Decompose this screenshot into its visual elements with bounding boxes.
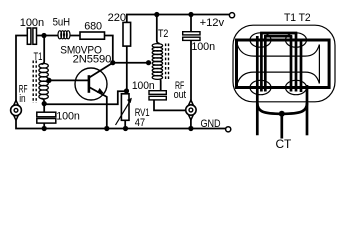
T1 core dashes <box>32 61 34 104</box>
transformer T1 winding <box>42 36 45 65</box>
svg-text:5uH: 5uH <box>53 17 71 29</box>
svg-text:100n: 100n <box>132 80 155 92</box>
node T1 tap dot <box>46 78 51 83</box>
wire: C3 bottom to RF out <box>154 100 186 111</box>
wire: C1 to node A <box>37 35 59 37</box>
emitter lead with arrow <box>89 87 107 129</box>
wire: C4 bottom to RF out connector top <box>190 40 192 100</box>
transistor Q1 2N5590 <box>75 68 107 100</box>
node top rail C4 dot <box>188 12 193 17</box>
node C2 ground dot <box>42 126 47 131</box>
node T1 bottom dot <box>42 101 47 106</box>
collector lead diagonal to node <box>89 63 113 78</box>
resistor R2 220 (vertical) <box>123 22 131 46</box>
node RV1 ground dot <box>123 126 128 131</box>
wire: bias node to T1 bottom (crosses emitter wire) <box>44 91 126 104</box>
wire: collector node to T2 tap <box>113 62 150 64</box>
svg-text:47: 47 <box>135 117 145 129</box>
wire: J2 bottom to rail <box>190 120 192 129</box>
node top rail T2 dot <box>154 12 159 17</box>
svg-text:T2: T2 <box>158 28 168 40</box>
resistor R1 680 <box>80 32 105 39</box>
winding diagram: core block <box>237 40 330 88</box>
winding diagram: wire bars through right tube <box>290 36 293 91</box>
winding diagram: wire bars through left tube <box>256 36 259 135</box>
node bias junction dot <box>124 88 129 93</box>
svg-text:100n: 100n <box>191 41 215 53</box>
wire: R1 right down to collector node <box>105 36 113 63</box>
capacitor C1 100n (input coupling) <box>27 28 31 44</box>
node A junction dot <box>41 33 46 38</box>
svg-text:100n: 100n <box>20 17 44 29</box>
svg-text:out: out <box>174 89 186 101</box>
svg-text:T1: T1 <box>34 51 43 63</box>
connector J1 RF in <box>11 100 20 120</box>
connector J2 RF out <box>186 100 195 120</box>
wire: R2 top to +12v rail corner <box>127 15 230 23</box>
wire: CT lead <box>280 114 283 139</box>
winding diagram: centre tap curve <box>257 103 307 114</box>
node T2 tap dot <box>146 60 151 65</box>
svg-text:GND: GND <box>201 118 221 130</box>
wire: J1 bottom to rail corner <box>16 120 226 128</box>
wire: C2 bottom to rail <box>43 123 45 128</box>
svg-text:220: 220 <box>108 12 126 24</box>
wire: T1 tap to base <box>49 79 88 81</box>
terminal +12v <box>229 13 234 18</box>
terminal GND <box>226 127 231 132</box>
svg-text:T1 T2: T1 T2 <box>284 12 311 24</box>
capacitor C2 100n (T1 bottom to ground) <box>37 112 56 117</box>
winding diagram: tube opening ellipses <box>250 33 271 47</box>
transformer T2 winding <box>157 15 160 44</box>
wire: R2 bottom down to bias node <box>126 46 128 91</box>
capacitor C3 100n (output coupling) <box>149 91 166 95</box>
svg-text:100n: 100n <box>56 111 80 123</box>
T2 core dashes <box>165 44 167 82</box>
node collector junction dot <box>110 60 115 65</box>
winding diagram: inner winding wires through tubes <box>237 45 319 57</box>
transformer winding diagram: outer winding loop <box>233 25 335 102</box>
svg-text:2N5590: 2N5590 <box>73 54 112 66</box>
svg-text:CT: CT <box>276 137 292 150</box>
svg-text:+12v: +12v <box>200 17 225 29</box>
node emitter ground dot <box>104 126 109 131</box>
inductor L1 5uH <box>58 31 62 39</box>
capacitor C4 100n (supply decoupling) <box>190 15 192 32</box>
wire: L1 to R1 <box>70 35 81 37</box>
wire: RF in riser and top bend to C1 <box>16 36 28 102</box>
potentiometer RV1 47 <box>121 94 129 121</box>
node J2 ground dot <box>188 126 193 131</box>
svg-text:in: in <box>19 93 25 105</box>
winding diagram: top cross-over wires <box>260 32 297 35</box>
svg-text:680: 680 <box>84 21 102 33</box>
node CT dot <box>279 111 285 117</box>
wire: RV1 bottom to ground rail <box>124 120 126 128</box>
